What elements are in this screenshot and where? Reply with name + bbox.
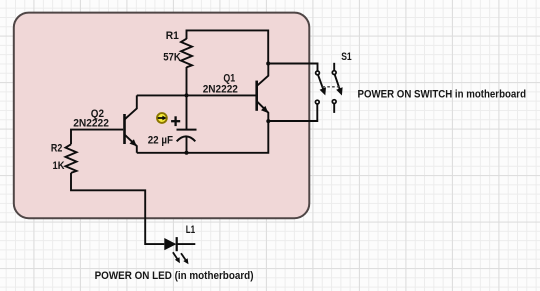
wire base rail (Q2 collector to Q1 base) — [137, 94, 256, 96]
capacitor C1 — [177, 130, 197, 142]
transistor Q1 — [257, 64, 269, 122]
svg-text:S1: S1 — [341, 51, 352, 63]
resistor R1 — [181, 39, 192, 68]
wire R1 bottom to base rail — [186, 67, 188, 95]
junction rail/R1/C1 — [185, 93, 189, 97]
junction node A — [266, 62, 270, 66]
junction node B (emitter) — [266, 119, 270, 123]
wire LED cathode stub — [177, 243, 196, 245]
wire R1 top rail to node A — [187, 30, 269, 63]
wire C1 top lead — [186, 95, 188, 129]
wire C1 bottom lead — [186, 137, 188, 153]
polarity plus sign — [171, 116, 180, 126]
transistor Q2 — [125, 95, 137, 152]
LED L1 — [164, 237, 188, 264]
junction C1 bottom — [185, 151, 189, 155]
wire Q2 base to R2 top — [71, 130, 123, 145]
svg-text:2N2222: 2N2222 — [203, 83, 238, 95]
enclosure box (motherboard outline) — [14, 13, 310, 219]
svg-text:POWER ON SWITCH in motherboard: POWER ON SWITCH in motherboard — [358, 88, 527, 100]
svg-text:POWER ON LED (in motherboard): POWER ON LED (in motherboard) — [95, 270, 254, 282]
svg-text:1K: 1K — [53, 160, 65, 172]
annotation marker (yellow probe) — [157, 113, 167, 123]
wire R2 bottom to LED L1 — [71, 173, 164, 244]
svg-text:2N2222: 2N2222 — [73, 117, 109, 129]
wire node A to switch pole 1 top — [268, 64, 317, 72]
svg-text:R1: R1 — [166, 30, 179, 42]
wire node B to switch pole 1 bottom — [268, 104, 317, 121]
wire bottom rail (Q2 emitter to node B) — [137, 121, 268, 153]
svg-text:22 µF: 22 µF — [148, 134, 173, 146]
svg-text:R2: R2 — [51, 143, 62, 155]
switch S1 — [315, 63, 342, 113]
svg-text:L1: L1 — [186, 224, 195, 236]
resistor R2 — [66, 144, 77, 173]
svg-text:57K: 57K — [163, 52, 181, 64]
